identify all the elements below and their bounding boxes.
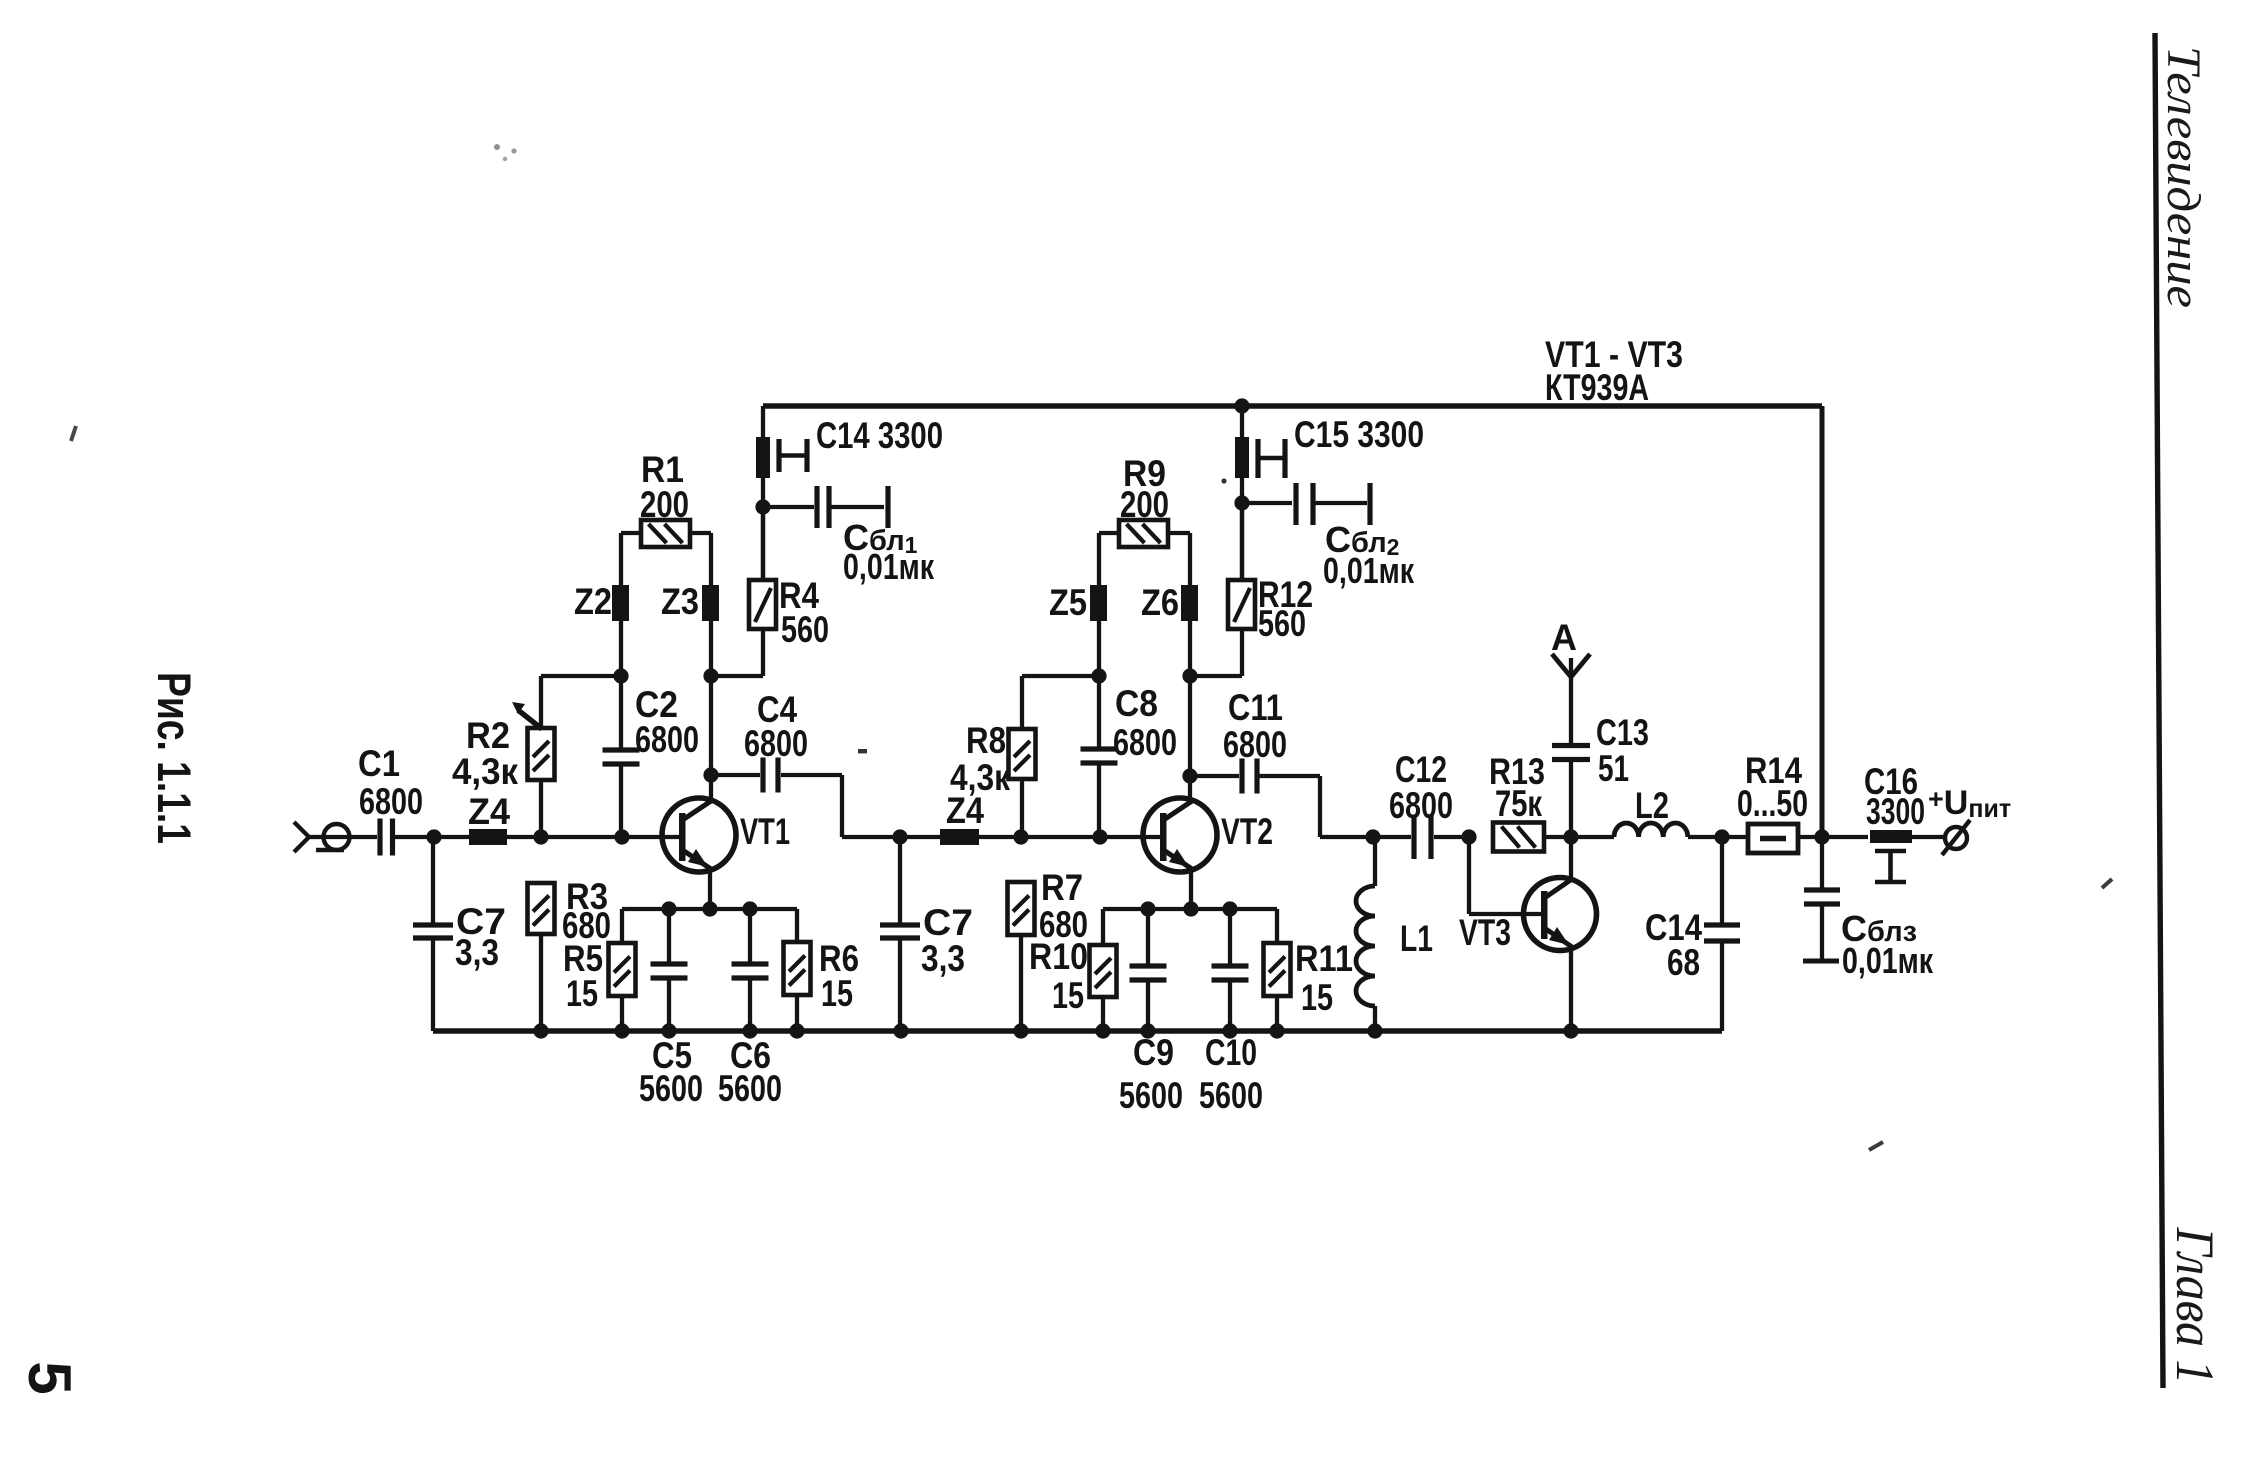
svg-text:C9: C9 bbox=[1133, 1032, 1174, 1073]
svg-text:КТ939А: КТ939А bbox=[1545, 367, 1649, 408]
transistor VT2 bbox=[1143, 798, 1273, 872]
scan speck bbox=[71, 426, 76, 441]
wire bbox=[434, 835, 469, 839]
svg-text:C13: C13 bbox=[1596, 712, 1649, 753]
svg-text:C11: C11 bbox=[1228, 687, 1283, 728]
inductor Z3 bbox=[661, 581, 719, 676]
capacitor C5 bbox=[639, 909, 703, 1109]
svg-text:68: 68 bbox=[1667, 942, 1700, 983]
node bus/C9 bbox=[1140, 1023, 1155, 1038]
page edge rule bbox=[2155, 33, 2163, 1388]
node rail2/C9 bbox=[1140, 901, 1155, 916]
inductor L1 bbox=[1356, 837, 1433, 1031]
resistor R11 bbox=[1264, 909, 1354, 1031]
label +Uпит bbox=[1928, 784, 2011, 823]
capacitor C13 bbox=[1552, 658, 1649, 832]
node collector VT2 / C11 bbox=[1182, 768, 1197, 783]
capacitor C8 bbox=[1081, 676, 1178, 837]
capacitor C6 bbox=[718, 909, 782, 1109]
input terminal bbox=[294, 822, 350, 852]
svg-text:3,3: 3,3 bbox=[921, 938, 965, 979]
svg-text:L2: L2 bbox=[1635, 785, 1669, 826]
resistor R14 (0...50) bbox=[1722, 750, 1808, 853]
node Сбл1 junction bbox=[755, 499, 770, 514]
svg-text:0,01мк: 0,01мк bbox=[1323, 550, 1415, 591]
svg-text:C7: C7 bbox=[923, 902, 973, 943]
resistor R12 bbox=[1190, 510, 1313, 676]
node bus/L1 bbox=[1367, 1023, 1382, 1038]
wire bbox=[1798, 835, 1822, 839]
wire bbox=[1188, 776, 1192, 800]
inductor Z4 (second) bbox=[900, 790, 984, 845]
node Z3/R4 bbox=[703, 668, 718, 683]
svg-text:Z3: Z3 bbox=[661, 581, 699, 622]
svg-text:C1: C1 bbox=[358, 743, 400, 784]
node antenna/collector VT3 bbox=[1563, 829, 1578, 844]
capacitor Сбл1 bbox=[763, 486, 935, 587]
svg-text:560: 560 bbox=[781, 609, 829, 650]
svg-text:Z4: Z4 bbox=[468, 791, 510, 832]
node Z6/R12 bbox=[1182, 668, 1197, 683]
svg-text:5600: 5600 bbox=[718, 1068, 782, 1109]
svg-text:Рис. 1.1.1: Рис. 1.1.1 bbox=[148, 672, 201, 844]
capacitor C9 bbox=[1119, 909, 1183, 1116]
capacitor C16 (feedthrough) bbox=[1822, 761, 1944, 882]
node bus/C5 bbox=[661, 1023, 676, 1038]
capacitor C7 (second) bbox=[880, 837, 973, 1031]
output terminal bbox=[1942, 820, 1970, 855]
svg-text:560: 560 bbox=[1258, 603, 1306, 644]
node bus/R5 bbox=[614, 1023, 629, 1038]
svg-text:51: 51 bbox=[1598, 748, 1629, 789]
resistor R6 bbox=[784, 909, 860, 1031]
svg-text:5600: 5600 bbox=[1119, 1075, 1183, 1116]
node C7-2 junction bbox=[892, 829, 907, 844]
resistor R4 bbox=[711, 512, 829, 676]
emitter rail VT1 bbox=[622, 907, 797, 911]
svg-text:R7: R7 bbox=[1041, 867, 1083, 908]
svg-text:R8: R8 bbox=[966, 720, 1006, 761]
node Z2/R2/C2 bbox=[613, 668, 628, 683]
resistor R5 bbox=[563, 909, 636, 1031]
wire collector VT3 bbox=[1569, 837, 1573, 879]
svg-text:15: 15 bbox=[821, 973, 853, 1014]
wire bbox=[507, 835, 679, 839]
node rail2/C10 bbox=[1222, 901, 1237, 916]
svg-text:6800: 6800 bbox=[1223, 724, 1287, 765]
scan speck bbox=[494, 144, 517, 161]
figure caption Рис. 1.1.1 bbox=[148, 672, 201, 844]
capacitor C14 (feedthrough) bbox=[756, 406, 943, 503]
svg-text:C12: C12 bbox=[1395, 749, 1447, 790]
node bus/C10 bbox=[1222, 1023, 1237, 1038]
svg-text:VT1: VT1 bbox=[740, 811, 790, 852]
capacitor Сбл3 bbox=[1803, 837, 1934, 981]
node bus/R7 bbox=[1013, 1023, 1028, 1038]
capacitor C1 bbox=[358, 743, 430, 856]
node bus/R6 bbox=[789, 1023, 804, 1038]
scan speck bbox=[1869, 1142, 1883, 1150]
svg-text:R11: R11 bbox=[1295, 938, 1353, 979]
node C1/C7 junction bbox=[426, 829, 441, 844]
node R2/R3 base junction bbox=[533, 829, 548, 844]
svg-text:Телевидение: Телевидение bbox=[2157, 46, 2210, 308]
node bus/VT3 emitter bbox=[1563, 1023, 1578, 1038]
svg-text:6800: 6800 bbox=[359, 781, 423, 822]
svg-text:C15 3300: C15 3300 bbox=[1294, 414, 1424, 455]
wire emitter VT3 bbox=[1569, 948, 1573, 1031]
wire collector VT1 riser bbox=[709, 676, 713, 770]
svg-text:R2: R2 bbox=[466, 715, 510, 756]
wire VT3 base bbox=[1469, 837, 1541, 914]
capacitor C15 (feedthrough) bbox=[1235, 406, 1424, 499]
svg-text:L1: L1 bbox=[1400, 918, 1433, 959]
svg-text:6800: 6800 bbox=[1113, 722, 1177, 763]
transistor VT1 bbox=[662, 798, 790, 872]
svg-text:C8: C8 bbox=[1115, 683, 1158, 724]
svg-text:0,01мк: 0,01мк bbox=[843, 546, 935, 587]
scan speck bbox=[2102, 879, 2112, 888]
inductor Z5 bbox=[1049, 582, 1107, 676]
wire collector VT2 riser bbox=[1188, 676, 1192, 771]
node C8 junction bbox=[1092, 829, 1107, 844]
svg-text:6800: 6800 bbox=[744, 723, 808, 764]
svg-text:0...50: 0...50 bbox=[1737, 783, 1808, 824]
page number 5 bbox=[16, 1361, 83, 1394]
wire emitter VT1 bbox=[708, 870, 712, 909]
node rail2/emitter bbox=[1183, 901, 1198, 916]
node Z5/R8/C8 bbox=[1091, 668, 1106, 683]
capacitor C4 bbox=[711, 689, 900, 837]
antenna A bbox=[1551, 617, 1590, 677]
capacitor C14 (68) bbox=[1645, 837, 1740, 1031]
svg-text:200: 200 bbox=[640, 484, 689, 525]
node supply junction bbox=[1814, 829, 1829, 844]
wire bbox=[761, 512, 765, 580]
svg-text:3300: 3300 bbox=[1866, 791, 1925, 832]
resistor R2 (trimmer) bbox=[452, 676, 614, 837]
node C2 base junction bbox=[614, 829, 629, 844]
capacitor C7 (input) bbox=[413, 837, 506, 1031]
node rail/emitter bbox=[702, 901, 717, 916]
right supply riser bbox=[1820, 406, 1825, 837]
node bus/C6 bbox=[742, 1023, 757, 1038]
capacitor C2 bbox=[603, 676, 700, 837]
wire bbox=[1240, 508, 1244, 580]
capacitor C12 bbox=[1373, 749, 1466, 859]
wire bbox=[709, 775, 713, 800]
svg-text:VT3: VT3 bbox=[1459, 912, 1511, 953]
svg-text:15: 15 bbox=[1052, 975, 1084, 1016]
capacitor C11 bbox=[1190, 687, 1373, 837]
scan speck bbox=[858, 749, 867, 753]
svg-text:Z5: Z5 bbox=[1049, 582, 1087, 623]
svg-text:C14 3300: C14 3300 bbox=[816, 415, 943, 456]
node top bus / C15 bbox=[1234, 398, 1249, 413]
capacitor C10 bbox=[1199, 909, 1263, 1116]
top supply bus bbox=[763, 403, 1822, 408]
svg-text:R10: R10 bbox=[1029, 936, 1088, 977]
node bus/R11 bbox=[1269, 1023, 1284, 1038]
svg-text:5: 5 bbox=[16, 1361, 83, 1394]
svg-text:4,3к: 4,3к bbox=[950, 757, 1010, 798]
svg-text:A: A bbox=[1551, 617, 1577, 658]
svg-text:5600: 5600 bbox=[639, 1068, 703, 1109]
emitter rail VT2 bbox=[1103, 907, 1277, 911]
svg-text:Z6: Z6 bbox=[1141, 582, 1179, 623]
svg-text:6800: 6800 bbox=[635, 719, 699, 760]
resistor R1 bbox=[621, 449, 711, 585]
node Сбл2 junction bbox=[1234, 495, 1249, 510]
node C14-68 junction bbox=[1714, 829, 1729, 844]
resistor R7 bbox=[1008, 867, 1089, 1031]
bottom ground bus bbox=[433, 1028, 1722, 1033]
node R8/R7 junction bbox=[1013, 829, 1028, 844]
transistor VT3 bbox=[1459, 878, 1597, 954]
node collector VT1 / C4 bbox=[703, 767, 718, 782]
inductor Z4 (input) bbox=[468, 791, 510, 845]
inductor Z2 bbox=[574, 581, 629, 676]
node rail/C6 bbox=[742, 901, 757, 916]
wire bbox=[979, 835, 1160, 839]
resistor R13 bbox=[1489, 751, 1571, 852]
svg-text:Z2: Z2 bbox=[574, 581, 612, 622]
svg-text:200: 200 bbox=[1120, 484, 1169, 525]
node rail/C5 bbox=[661, 901, 676, 916]
svg-text:75к: 75к bbox=[1495, 783, 1542, 824]
wire bbox=[349, 835, 377, 839]
svg-text:5600: 5600 bbox=[1199, 1075, 1263, 1116]
svg-text:3,3: 3,3 bbox=[455, 932, 499, 973]
scan speck bbox=[1221, 478, 1226, 483]
svg-text:4,3к: 4,3к bbox=[452, 751, 518, 792]
resistor R8 bbox=[950, 676, 1092, 837]
running head Телевидение bbox=[2157, 46, 2210, 308]
node bus/C7-2 bbox=[893, 1023, 908, 1038]
svg-text:0,01мк: 0,01мк bbox=[1842, 940, 1934, 981]
svg-text:VT2: VT2 bbox=[1221, 811, 1273, 852]
inductor L2 bbox=[1571, 785, 1719, 837]
node bus/R10 bbox=[1095, 1023, 1110, 1038]
resistor R10 bbox=[1029, 909, 1117, 1031]
resistor R3 bbox=[528, 876, 612, 1031]
running foot Глава 1 bbox=[2165, 1227, 2225, 1385]
inductor Z6 bbox=[1141, 582, 1198, 676]
svg-text:15: 15 bbox=[566, 973, 598, 1014]
node bus/R3 bbox=[533, 1023, 548, 1038]
capacitor Сбл2 bbox=[1242, 483, 1415, 591]
resistor R9 bbox=[1099, 453, 1190, 585]
svg-text:15: 15 bbox=[1301, 977, 1333, 1018]
wire emitter VT2 bbox=[1189, 870, 1193, 909]
svg-text:Глава 1: Глава 1 bbox=[2165, 1227, 2225, 1385]
label VT1 - VT3 type bbox=[1545, 334, 1683, 408]
node R13/VT3 base junction bbox=[1461, 829, 1476, 844]
svg-text:6800: 6800 bbox=[1389, 785, 1453, 826]
node L1 junction bbox=[1365, 829, 1380, 844]
